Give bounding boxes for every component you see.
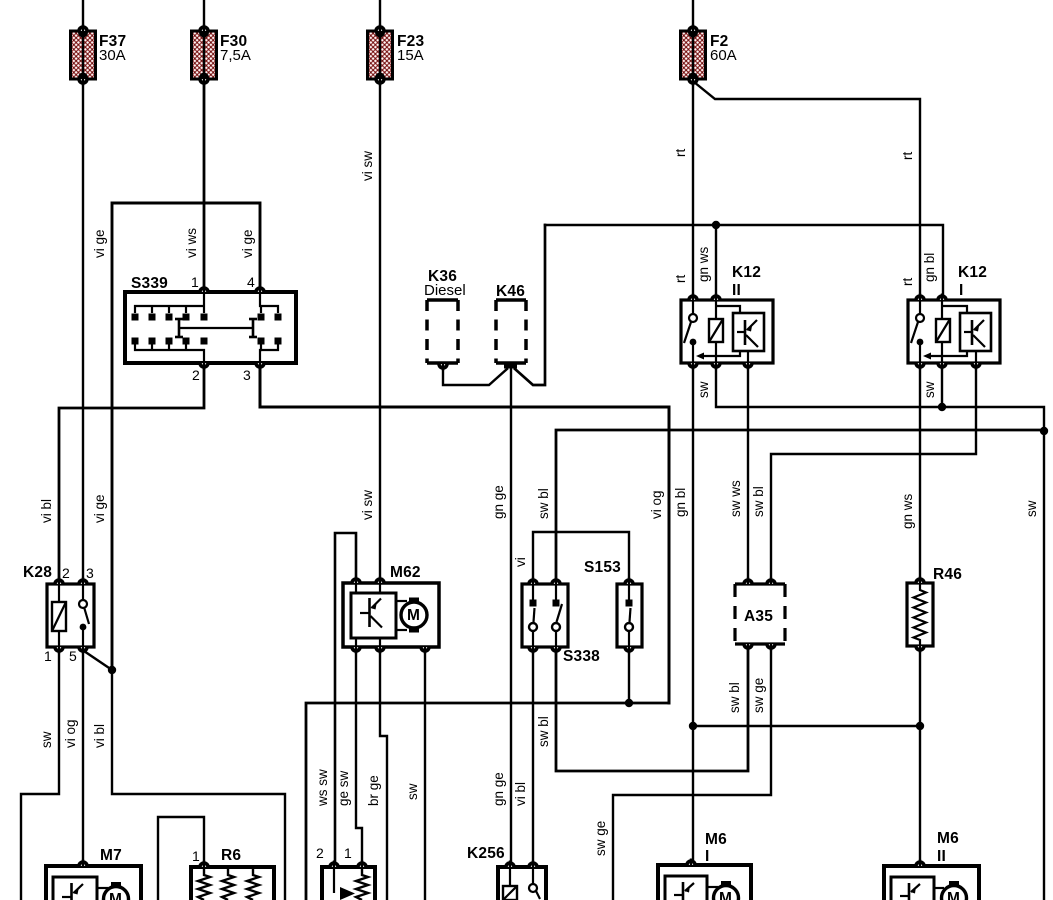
wire horizontal y726 gn bl to R46	[693, 725, 920, 727]
wire K12 II pin 1 gn bl down to M6 I	[692, 363, 694, 862]
wire F23 vi sw to M62 pin 2	[379, 79, 381, 580]
svg-text:1: 1	[192, 848, 200, 864]
svg-text:vi sw: vi sw	[360, 151, 375, 181]
wire S339 pin 3 vi og run	[260, 366, 669, 703]
wire M62 pin 2 br ge to bottom	[380, 650, 387, 900]
wire F2 rt to K12 II pin 1	[692, 79, 694, 300]
wire ws sw bridge from M62 pin 1 to comp pin 2	[335, 533, 356, 864]
wire F2 branch rt to K12 I pin 1	[694, 82, 920, 300]
svg-text:sw: sw	[1024, 500, 1039, 517]
svg-text:15A: 15A	[397, 47, 424, 64]
svg-text:K28: K28	[23, 564, 52, 581]
svg-text:A35: A35	[744, 608, 773, 625]
motor unit M62	[343, 564, 439, 654]
wire vi bl continuation to R6 right side	[112, 670, 285, 900]
wire K28 pin 1 sw run to bottom left	[21, 650, 59, 900]
wire K28 pin 5 vi og to M7	[82, 650, 84, 864]
svg-text:M62: M62	[390, 564, 421, 581]
wire M62 pin 3 sw to bottom	[424, 650, 426, 900]
fuse F37	[71, 25, 127, 86]
svg-text:S338: S338	[563, 648, 600, 665]
svg-text:I: I	[959, 282, 964, 299]
svg-text:sw bl: sw bl	[751, 486, 766, 517]
svg-text:S339: S339	[131, 275, 168, 292]
svg-text:rt: rt	[673, 275, 688, 283]
wire F37 top feed	[82, 0, 84, 31]
svg-text:sw: sw	[696, 381, 711, 398]
wire F2 top feed	[692, 0, 694, 31]
switch S153	[584, 559, 642, 654]
wire K12 I pin 1 gn ws to R46	[919, 363, 921, 580]
node R46 junction	[916, 722, 924, 730]
svg-text:K12: K12	[732, 264, 761, 281]
svg-text:M: M	[407, 607, 420, 624]
node gn ws junction	[712, 221, 720, 229]
svg-text:rt: rt	[900, 278, 915, 286]
svg-text:vi: vi	[513, 557, 528, 567]
svg-text:sw: sw	[922, 381, 937, 398]
node S153 junction	[625, 699, 633, 707]
svg-text:sw bl: sw bl	[536, 488, 551, 519]
svg-text:ws sw: ws sw	[315, 769, 330, 807]
svg-text:vi og: vi og	[649, 490, 664, 519]
motor unit M6 I	[658, 831, 751, 900]
svg-text:II: II	[732, 282, 741, 299]
svg-text:ge sw: ge sw	[336, 770, 351, 806]
svg-text:R6: R6	[221, 847, 241, 864]
svg-text:rt: rt	[900, 152, 915, 160]
svg-text:gn ge: gn ge	[491, 772, 506, 806]
svg-text:5: 5	[69, 648, 77, 664]
wire K12 I pin 3 to A35 pin 2 sw bl	[771, 363, 976, 580]
fuse F2	[681, 25, 737, 86]
wire F30 top feed	[203, 0, 205, 31]
svg-text:1: 1	[344, 845, 352, 861]
relay K12 I	[908, 264, 1000, 370]
svg-text:2: 2	[316, 845, 324, 861]
wire bus gn ws / gn bl at y 225	[545, 225, 943, 300]
svg-text:sw ge: sw ge	[593, 821, 608, 856]
svg-text:rt: rt	[673, 149, 688, 157]
svg-text:M: M	[719, 890, 732, 900]
wire labels (rotated)	[39, 149, 1039, 856]
svg-text:gn ge: gn ge	[491, 485, 506, 519]
svg-text:2: 2	[62, 565, 70, 581]
svg-text:60A: 60A	[710, 47, 737, 64]
glow element unit (pins 2,1)	[316, 845, 375, 900]
svg-text:vi ge: vi ge	[240, 229, 255, 258]
svg-text:vi ws: vi ws	[184, 228, 199, 258]
switch S338	[522, 578, 600, 666]
svg-text:sw: sw	[39, 731, 54, 748]
svg-text:vi bl: vi bl	[92, 724, 107, 748]
wire F30 vi ws to S339 pin 1	[203, 79, 206, 290]
node K12 I coil junction	[938, 403, 946, 411]
svg-text:sw ws: sw ws	[728, 480, 743, 517]
svg-text:K12: K12	[958, 264, 987, 281]
relay K256	[467, 845, 546, 900]
svg-text:sw ge: sw ge	[751, 678, 766, 713]
svg-text:gn ws: gn ws	[900, 493, 915, 529]
wire K12 I coil pin to bus	[941, 363, 943, 407]
wire S339 pin 2 vi bl run	[59, 366, 204, 581]
wire F37 to K28 pin 3	[82, 79, 84, 581]
switch unit S339	[125, 274, 296, 383]
wire K28 pin 5 diagonal to vi-ge node	[84, 651, 112, 670]
wire S153 bottom to junction	[628, 650, 630, 703]
svg-text:I: I	[705, 848, 710, 865]
svg-text:K256: K256	[467, 845, 505, 862]
wire gn ws drop to K12 II pin 2	[715, 225, 717, 300]
node vi ge / K28 pin 5 junction	[108, 666, 116, 674]
node M6 I junction	[689, 722, 697, 730]
svg-text:M6: M6	[705, 831, 727, 848]
wire K46 right link riser rt	[515, 225, 545, 385]
control unit A35	[735, 578, 785, 651]
wire M62 pin 1 ge sw to comp pin 1	[356, 650, 362, 864]
svg-text:vi bl: vi bl	[39, 499, 54, 523]
svg-text:S153: S153	[584, 559, 621, 576]
wire R6 pin 1 riser	[158, 817, 204, 900]
motor unit M6 II	[884, 830, 979, 900]
svg-text:gn ws: gn ws	[696, 246, 711, 282]
svg-text:1: 1	[44, 648, 52, 664]
wire K36 bottom link to K46	[443, 368, 507, 385]
svg-text:M: M	[947, 890, 960, 900]
connector K36 Diesel	[424, 268, 466, 371]
relay K12 II	[681, 264, 773, 370]
wire F23 top feed	[379, 0, 381, 31]
fuse F23	[368, 25, 425, 86]
svg-text:2: 2	[192, 367, 200, 383]
svg-text:vi og: vi og	[63, 719, 78, 748]
svg-text:1: 1	[191, 274, 199, 290]
resistor R46	[907, 566, 962, 653]
svg-text:gn bl: gn bl	[922, 253, 937, 282]
svg-text:M: M	[109, 891, 122, 900]
wire S338 pin 1 vi bl down to K256 pin 2	[532, 650, 534, 863]
wire sw bl from S338 pin 2 up to bus y430	[556, 430, 1044, 580]
svg-text:II: II	[937, 848, 946, 865]
svg-text:br ge: br ge	[366, 775, 381, 806]
svg-text:sw bl: sw bl	[727, 682, 742, 713]
svg-text:vi bl: vi bl	[513, 782, 528, 806]
svg-text:M7: M7	[100, 847, 122, 864]
svg-text:M6: M6	[937, 830, 959, 847]
svg-text:4: 4	[247, 274, 255, 290]
svg-text:Diesel: Diesel	[424, 282, 466, 299]
wire vi bridge S338 pin 1 to S153	[533, 532, 629, 580]
relay K28	[23, 564, 94, 664]
svg-text:R46: R46	[933, 566, 962, 583]
svg-text:sw bl: sw bl	[536, 716, 551, 747]
wire S338 pin 2 down to A35 pin 3 link	[556, 648, 748, 771]
wire K46 gn ge down to K256 pin 1	[510, 368, 512, 863]
svg-text:sw: sw	[405, 783, 420, 800]
node sw bus junction	[1040, 427, 1048, 435]
resistor block R6	[191, 847, 274, 900]
fuse F30	[192, 25, 251, 86]
svg-text:K46: K46	[496, 283, 525, 300]
motor unit M7	[46, 847, 141, 900]
svg-text:vi ge: vi ge	[92, 494, 107, 523]
wire horizontal y703 to bottom left	[306, 703, 669, 900]
svg-text:vi ge: vi ge	[92, 229, 107, 258]
wire K12 II pin 3 sw ws to A35 pin 1	[747, 363, 749, 580]
svg-text:vi sw: vi sw	[360, 490, 375, 520]
wire R46 bottom to M6 II	[919, 650, 921, 862]
svg-text:30A: 30A	[99, 47, 126, 64]
wire K12 coils bus y407	[716, 363, 1044, 900]
svg-text:7,5A: 7,5A	[220, 47, 251, 64]
wire A35 pin 4 sw ge run	[613, 648, 771, 900]
wire vi ge bus from S339 pin 4	[112, 203, 260, 670]
svg-text:gn bl: gn bl	[673, 488, 688, 517]
connector K46	[496, 283, 526, 369]
svg-text:3: 3	[86, 565, 94, 581]
svg-text:3: 3	[243, 367, 251, 383]
